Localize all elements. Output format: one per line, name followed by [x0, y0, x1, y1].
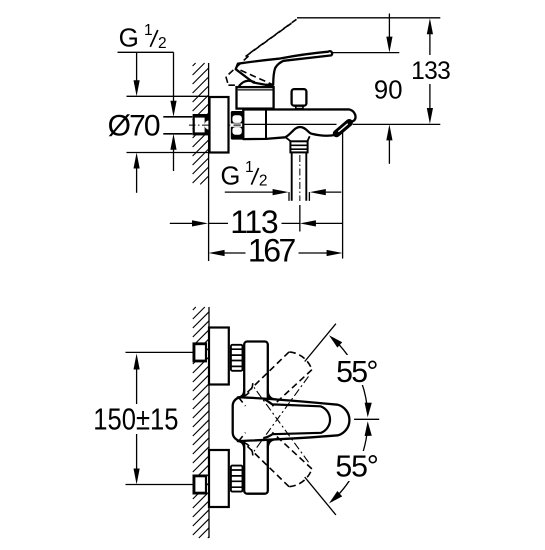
svg-text:G: G: [119, 22, 139, 52]
wall connection square lower (top view): [193, 475, 208, 495]
svg-text:2: 2: [158, 35, 167, 52]
cartridge escutcheon block: [237, 87, 274, 109]
svg-text:Ø70: Ø70: [108, 109, 161, 142]
55° angle vertex line: [354, 418, 379, 420]
escutcheon upper (top view): [209, 328, 229, 385]
union nut (side view): [230, 111, 244, 140]
handle inner outline: [264, 399, 331, 439]
svg-text:1: 1: [245, 159, 254, 176]
55° leg lower: [305, 477, 336, 515]
diverter knob: [292, 89, 307, 109]
167 dimension: [209, 233, 343, 269]
shower hose connector: [286, 136, 310, 152]
55° text upper: [332, 355, 382, 389]
lever handle (top view, solid): [233, 390, 350, 450]
svg-text:G: G: [221, 163, 241, 191]
shower hose: [292, 152, 307, 200]
arc arrowheads: [329, 335, 372, 503]
body seam line + 90/133 reference line: [243, 123, 440, 125]
133 dimension: [411, 18, 451, 124]
lever handle (side view, solid): [236, 51, 332, 86]
union nut upper (top view): [231, 345, 243, 371]
150±15 dimension: [93, 354, 178, 485]
spout outlet (black): [337, 123, 350, 134]
Ø70 dimension: [108, 52, 209, 193]
wall connection square upper (top view): [193, 342, 208, 362]
90 dimension: [374, 14, 403, 164]
wall connection square (side view): [193, 114, 209, 135]
faucet body (side view): [243, 109, 355, 139]
faucet body slab (top view): [244, 342, 268, 494]
G 1/2 label (shower hose): [221, 159, 268, 190]
113 dimension: [170, 204, 343, 240]
svg-text:133: 133: [411, 58, 451, 85]
raised handle phantom (dashed): [226, 19, 297, 85]
wall face line (top view): [208, 307, 210, 538]
133 top extension line (raised handle): [297, 17, 440, 19]
svg-text:90: 90: [374, 76, 403, 104]
G 1/2 hose dimension arrows: [225, 189, 341, 201]
supply pipe stub behind wall: [163, 117, 192, 134]
150±15 extension lines: [126, 352, 194, 484]
union nut lower (top view): [231, 466, 243, 492]
phantom lower centerline: [254, 387, 309, 462]
body internal vertical edge: [265, 110, 267, 139]
55° arc lower: [332, 424, 368, 502]
svg-text:167: 167: [248, 233, 296, 269]
rotated handle phantom upper (dashed): [238, 352, 312, 456]
escutcheon lower (top view): [209, 450, 229, 507]
svg-text:55°: 55°: [335, 451, 379, 484]
hose axis centerline: [299, 155, 301, 201]
spout tip extension line: [342, 132, 344, 259]
svg-text:150±15: 150±15: [93, 402, 178, 437]
wall hatching (side view): [193, 63, 209, 184]
55° leg upper: [305, 324, 336, 362]
union axis centerline (side view): [189, 124, 248, 126]
svg-text:2: 2: [259, 172, 268, 189]
phantom upper centerline: [254, 376, 309, 451]
rotated handle phantom lower (dashed): [238, 383, 312, 487]
hose axis extension line: [299, 205, 301, 232]
90 top extension line (handle tip): [333, 52, 399, 54]
escutcheon Ø70 (side view): [210, 97, 229, 153]
G 1/2 leader arrows to pipe (x=173.5): [170, 52, 176, 171]
G 1/2 label (top left): [118, 22, 174, 53]
slab-to-handle fillets: [237, 390, 277, 450]
55° text lower: [331, 451, 383, 484]
handle pivot dome: [239, 81, 255, 87]
svg-text:55°: 55°: [336, 356, 378, 389]
svg-text:1: 1: [144, 22, 153, 39]
wall face line / left extension line: [208, 63, 210, 261]
55° arc upper: [332, 338, 368, 416]
wall hatching (top view): [193, 307, 209, 538]
